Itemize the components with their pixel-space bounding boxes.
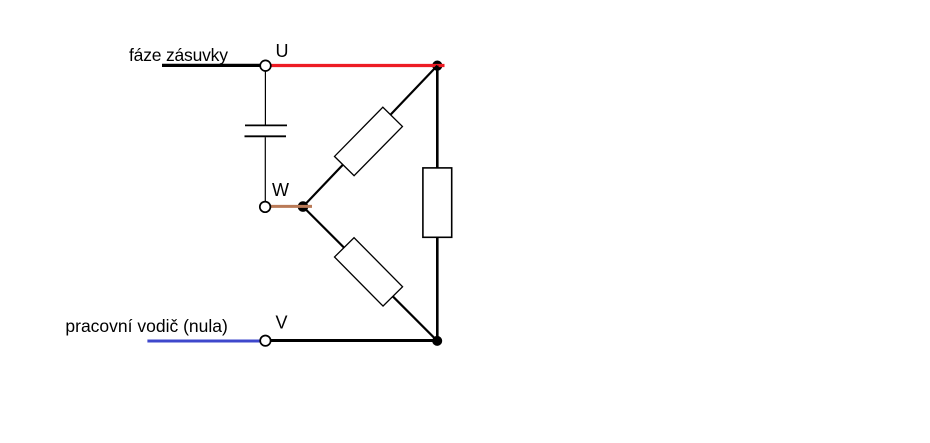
svg-text:V: V	[276, 312, 288, 332]
svg-text:fáze zásuvky: fáze zásuvky	[129, 45, 228, 65]
svg-text:U: U	[276, 41, 289, 61]
svg-text:W: W	[272, 180, 289, 200]
svg-text:pracovní vodič (nula): pracovní vodič (nula)	[65, 316, 227, 336]
